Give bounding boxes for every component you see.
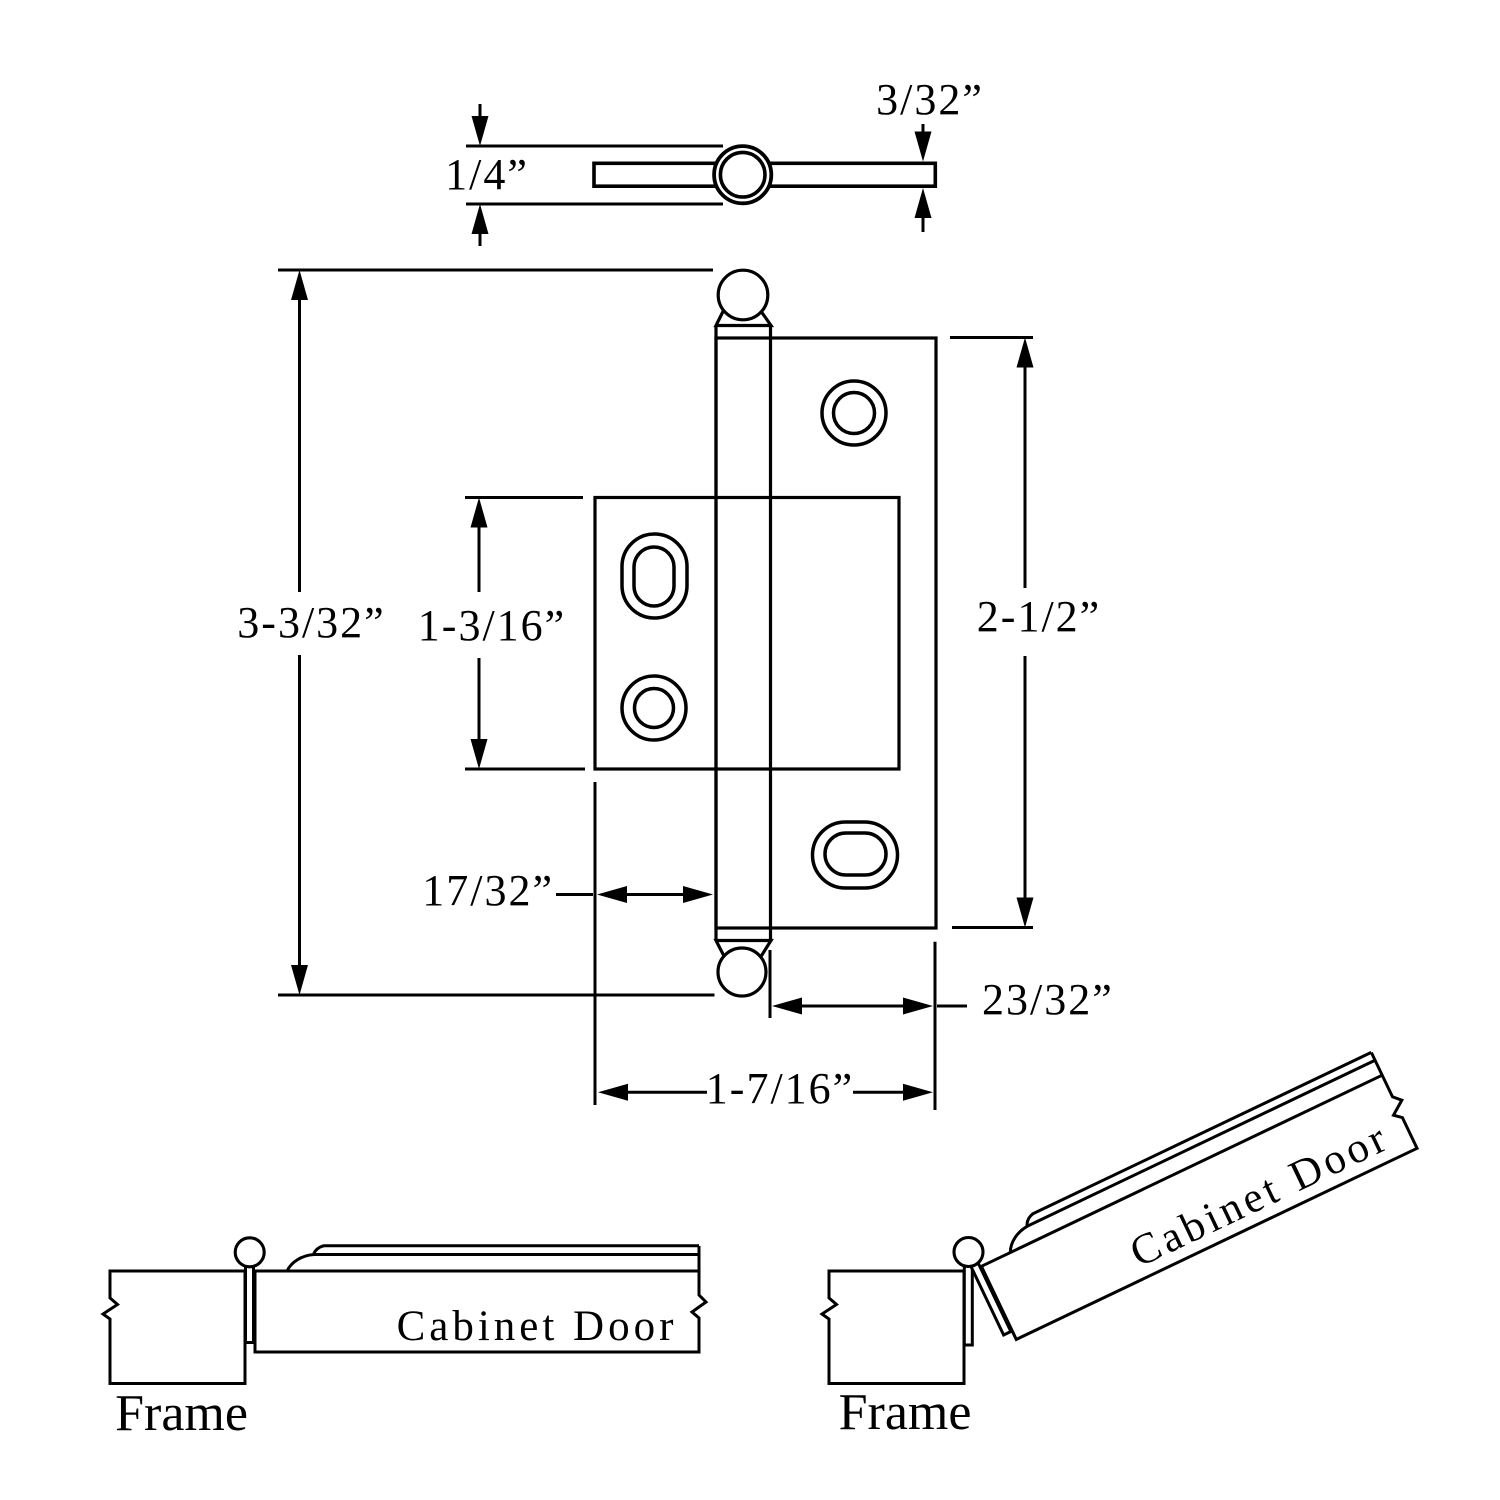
plate right extension line: [934, 942, 937, 1110]
dim 17/32 leader: [556, 893, 593, 896]
dim 2-1/2 extension line bottom: [952, 926, 1033, 929]
side view knuckle inner ring: [720, 152, 765, 197]
door molding large curve (open): [1003, 1226, 1034, 1253]
dim 3-3/32 extension line top: [278, 269, 713, 272]
door molding middle line (open): [1027, 1060, 1375, 1226]
hinge ball (open): [954, 1238, 983, 1267]
side view knuckle outer ring: [714, 146, 771, 203]
dim 1/4 extension line top: [466, 145, 723, 148]
svg-text:1/4”: 1/4”: [445, 150, 529, 199]
frame (open): [822, 1271, 964, 1384]
dim 1-7/16 line with arrows: [598, 1084, 933, 1101]
bottom oval hole outer: [813, 822, 898, 888]
door leaf left extension line: [594, 782, 597, 1105]
top screw hole inner: [834, 393, 875, 434]
dim 1/4 top arrow: [472, 104, 489, 146]
svg-text:1-3/16”: 1-3/16”: [418, 601, 566, 650]
dim 1-3/16 line with arrows: [471, 498, 488, 770]
frame-side hinge plate: [716, 338, 936, 928]
slot hole outer: [622, 534, 687, 618]
svg-text:3-3/32”: 3-3/32”: [237, 598, 385, 647]
svg-text:17/32”: 17/32”: [422, 866, 554, 915]
round hole inner: [635, 689, 674, 728]
barrel left line: [714, 326, 717, 940]
dim 3/32 bottom arrow: [915, 188, 932, 232]
dim 2-1/2 extension line top: [950, 336, 1033, 339]
bottom finial neck: [716, 941, 771, 959]
frame (closed): [103, 1271, 245, 1384]
dim 1-3/16 extension line bottom: [465, 768, 585, 771]
svg-text:23/32”: 23/32”: [982, 975, 1114, 1024]
top finial neck: [716, 311, 771, 326]
cabinet door body (closed): [255, 1246, 706, 1352]
svg-text:3/32”: 3/32”: [876, 75, 984, 124]
dim 1/4 extension line bottom: [466, 203, 723, 206]
dim 23/32 line with arrows: [772, 998, 933, 1015]
barrel right line: [769, 326, 772, 940]
dim 2-1/2 line with arrows: [1017, 338, 1034, 928]
door molding middle line: [313, 1253, 699, 1256]
round hole outer: [622, 676, 686, 740]
door molding small curve (open): [1023, 1214, 1036, 1226]
slot hole inner: [634, 547, 674, 606]
top screw hole outer: [822, 381, 886, 445]
door molding top line (open): [1032, 1052, 1371, 1214]
dim 17/32 line with arrows: [597, 886, 713, 903]
door-side leaf plate and cutout: [595, 498, 899, 770]
door molding small curve: [314, 1246, 325, 1255]
door molding large curve: [287, 1255, 314, 1272]
top finial ball: [718, 270, 768, 320]
barrel right extension line: [769, 950, 772, 1018]
door molding top line: [324, 1244, 700, 1247]
dim 3/32 top arrow: [915, 124, 932, 162]
svg-text:Frame: Frame: [839, 1384, 972, 1441]
dim 3-3/32 extension line bottom: [278, 994, 715, 997]
svg-text:Frame: Frame: [115, 1385, 248, 1442]
rotated door group: [962, 1049, 1423, 1343]
svg-text:Cabinet Door: Cabinet Door: [397, 1303, 678, 1350]
side view leaf plate: [594, 163, 935, 186]
svg-text:2-1/2”: 2-1/2”: [977, 592, 1101, 641]
bottom finial ball: [718, 948, 766, 996]
dim 23/32 leader: [937, 1005, 967, 1008]
dim 1-3/16 extension line top: [465, 496, 583, 499]
cabinet door body (open): [971, 1050, 1424, 1340]
svg-text:1-7/16”: 1-7/16”: [706, 1064, 854, 1113]
dim 1/4 bottom arrow: [472, 204, 489, 246]
dim 3-3/32 line with arrows: [291, 270, 308, 995]
bottom oval hole inner: [825, 833, 886, 875]
door-side pin bar (open): [971, 1262, 1011, 1334]
hinge ball (closed): [235, 1238, 264, 1267]
frame-side pin bar (open): [964, 1266, 972, 1345]
hinge pin bar (closed): [246, 1266, 254, 1343]
